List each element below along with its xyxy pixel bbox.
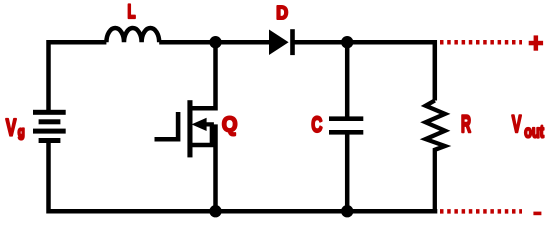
wire: bottom rail and left-bottom vertical (49, 141, 438, 211)
svg-text:Q: Q (222, 113, 238, 137)
wire: dotted output lead bottom (440, 209, 522, 214)
terminal - (533, 212, 541, 216)
svg-text:D: D (276, 2, 288, 23)
inductor L (106, 28, 159, 42)
resistor R (426, 101, 445, 212)
label Vg (6, 116, 25, 142)
source connection (190, 124, 216, 211)
node A: junction dot at drain / top rail (209, 36, 221, 48)
label C (311, 113, 322, 138)
drain lead (190, 42, 216, 108)
node C1: junction dot at MOSFET source / bottom rail (209, 205, 221, 217)
body arrow (192, 118, 207, 131)
svg-text:V: V (6, 116, 17, 142)
wire: dotted output lead top (440, 40, 522, 45)
svg-text:L: L (128, 1, 136, 23)
diode D (269, 29, 295, 55)
node C2: junction dot at capacitor bottom (341, 205, 353, 217)
transistor Q (MOSFET) (155, 42, 216, 211)
gate lead (155, 137, 179, 142)
label R (461, 111, 471, 138)
label Vout (512, 112, 544, 142)
terminal + (529, 35, 543, 50)
svg-text:V: V (512, 112, 522, 139)
label Q (222, 113, 238, 137)
svg-text:out: out (524, 123, 544, 142)
svg-text:R: R (461, 111, 471, 138)
label D (276, 2, 288, 23)
svg-text:g: g (18, 123, 25, 140)
channel bar (187, 100, 192, 157)
wire: top rail from inductor to diode (159, 40, 269, 45)
voltage source Vg (battery) (33, 110, 66, 143)
wire: top-left corner (Vg top to inductor) (49, 42, 107, 110)
gate bar (176, 112, 181, 142)
wire: top rail from diode to right corner, down to resistor (292, 42, 434, 100)
svg-text:C: C (311, 113, 322, 138)
label L (128, 1, 136, 23)
node B: junction dot at capacitor top (341, 36, 353, 48)
capacitor C (329, 42, 363, 211)
